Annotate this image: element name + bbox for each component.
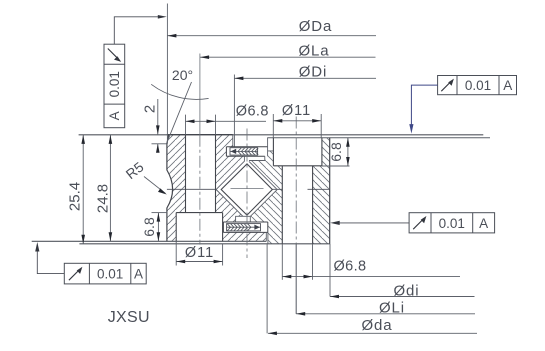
plug holes centerline — [246, 129, 248, 259]
OLi dimension line — [296, 312, 475, 316]
svg-text:24.8: 24.8 — [95, 184, 112, 213]
upper raceway recess notch — [249, 156, 265, 160]
inner ring upper half hatched section — [167, 135, 245, 190]
2mm step dimension — [152, 99, 168, 153]
ring separation gap at bottom face — [266, 232, 268, 243]
bottom-left frame leader — [35, 242, 64, 274]
svg-text:ØDa: ØDa — [299, 18, 333, 35]
upper spring pin plug — [230, 148, 258, 155]
upper-right runout tolerance frame — [438, 76, 517, 95]
O11 top counterbore dimension — [273, 114, 321, 138]
roller insertion hole lower outline — [223, 222, 267, 232]
outer ring bottom face line extended — [79, 243, 329, 245]
outer ring upper step corner — [268, 138, 274, 157]
inner ring hole centerline — [199, 135, 201, 245]
24.8 height dimension — [109, 135, 113, 241]
svg-text:0.01: 0.01 — [439, 216, 465, 231]
svg-text:6.8: 6.8 — [141, 217, 157, 237]
svg-text:25.4: 25.4 — [67, 182, 84, 211]
Odi extension line — [329, 244, 331, 297]
svg-text:0.01: 0.01 — [465, 78, 491, 93]
inner ring hole centerline extension to OLa — [199, 54, 201, 135]
svg-text:A: A — [503, 78, 512, 93]
top-left frame leader — [114, 15, 167, 44]
svg-text:JXSU: JXSU — [108, 309, 150, 326]
O11 bottom counterbore dimension — [176, 241, 222, 265]
outer ring mounting hole bore walls — [282, 166, 312, 244]
lower spring pin plug — [227, 224, 261, 231]
R5 groove leader — [144, 177, 167, 195]
6.8 right counterbore depth dimension — [322, 138, 350, 166]
outer ring hatched section — [249, 138, 330, 244]
O6.8 top hole dimension — [186, 115, 267, 135]
svg-text:ØLi: ØLi — [379, 300, 405, 317]
inner ring split line — [167, 188, 216, 190]
20 degree chamfer line — [166, 82, 191, 144]
roller cavity clearance line lower-right — [250, 190, 277, 217]
OLa dimension line — [200, 55, 375, 59]
roller cavity clearance line upper-left — [216, 156, 244, 189]
lower-right runout tolerance frame — [409, 213, 495, 233]
top-left runout tolerance frame (vertical) — [104, 44, 125, 128]
svg-text:6.8: 6.8 — [328, 142, 344, 162]
lower-right frame leader — [330, 221, 409, 225]
inner ring mounting hole bore walls — [186, 135, 216, 213]
Oda extension lines — [266, 244, 268, 333]
inner ring outline left edge with R5 groove — [167, 135, 173, 242]
ring separation gap at top face — [233, 135, 235, 147]
O6.8 bottom hole dimension — [282, 244, 460, 280]
OLi extension line — [295, 244, 297, 314]
outer ring outer edge — [329, 138, 331, 244]
outer ring hole centerline extension to OLi — [295, 244, 297, 314]
svg-text:Ø11: Ø11 — [282, 103, 311, 119]
25.4 height dimension — [81, 135, 85, 244]
svg-text:Ø6.8: Ø6.8 — [333, 259, 366, 275]
inner ring top edge — [167, 134, 233, 136]
svg-text:0.01: 0.01 — [97, 266, 123, 281]
roller center mark — [231, 188, 264, 190]
roller cavity clearance line lower-left — [216, 190, 243, 217]
ODi dimension line — [234, 77, 376, 81]
svg-text:Ødi: Ødi — [393, 282, 419, 299]
inner ring lower half hatched section — [167, 189, 266, 241]
Odi dimension line — [330, 295, 475, 299]
roller insertion hole upper outline — [226, 147, 267, 157]
svg-text:ØLa: ØLa — [298, 42, 329, 59]
ODa extension line — [166, 4, 168, 144]
roller cavity clearance line upper-right — [249, 161, 277, 189]
lower raceway recess notch — [236, 216, 251, 222]
svg-text:A: A — [479, 216, 488, 231]
outer ring top face line extended — [267, 137, 490, 139]
top face datum line extended — [79, 134, 484, 136]
svg-text:0.01: 0.01 — [107, 71, 122, 97]
inner ring bottom face line extended (datum A) — [32, 240, 267, 242]
svg-text:A: A — [134, 266, 143, 281]
inner ring counterbore outline — [176, 213, 222, 242]
20 degree arc — [151, 84, 208, 99]
6.8 left counterbore depth dimension — [152, 213, 168, 242]
upper-right frame leader — [409, 85, 437, 134]
svg-text:Øda: Øda — [361, 317, 392, 334]
svg-text:ØDi: ØDi — [299, 63, 328, 80]
outer ring split line — [272, 188, 329, 190]
svg-text:A: A — [107, 111, 122, 120]
ODi extension line — [233, 75, 235, 135]
bottom-left runout tolerance frame — [64, 263, 146, 284]
ODa dimension line — [167, 34, 376, 38]
svg-text:Ø6.8: Ø6.8 — [236, 104, 269, 120]
svg-text:20°: 20° — [172, 67, 193, 83]
svg-text:2: 2 — [142, 105, 159, 113]
Oda dimension line — [268, 332, 477, 336]
outer ring hole centerline — [295, 117, 297, 244]
crossed roller (diamond section) — [221, 164, 272, 215]
svg-text:Ø11: Ø11 — [185, 245, 214, 261]
outer ring counterbore outline — [273, 138, 322, 166]
